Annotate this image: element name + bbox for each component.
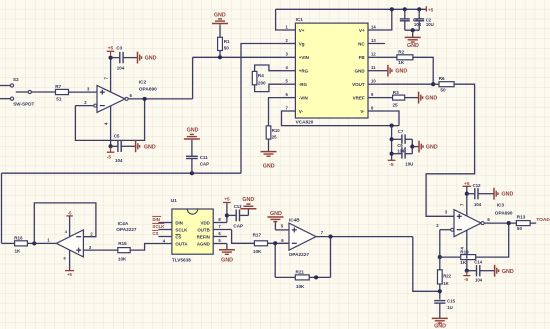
svg-text:-5: -5 <box>68 210 72 215</box>
svg-text:GND: GND <box>395 69 407 75</box>
resistor R3 25 <box>393 90 405 108</box>
svg-text:C5: C5 <box>114 133 120 138</box>
svg-text:12: 12 <box>371 52 376 57</box>
wire - +VIN net horizontal <box>193 56 282 58</box>
svg-text:OPA2227: OPA2227 <box>116 227 137 232</box>
wire - IC1 pin14 to +5 rail <box>382 9 392 30</box>
svg-text:50: 50 <box>440 88 446 93</box>
node - C9 junction <box>390 152 394 156</box>
power +5 at U1 <box>223 197 231 203</box>
svg-text:V-: V- <box>299 109 304 114</box>
svg-text:IC1: IC1 <box>296 17 304 22</box>
U1 pin names <box>175 221 209 247</box>
node - pin4 / C14 junction <box>465 269 469 273</box>
node - R17 / feedback junction <box>273 241 277 245</box>
node - VOUT/R2 junction <box>431 82 435 86</box>
svg-text:R3: R3 <box>393 90 399 95</box>
node - rail junction C2 <box>417 7 421 11</box>
svg-text:10U: 10U <box>405 161 413 166</box>
svg-text:51: 51 <box>56 96 62 101</box>
svg-text:OPA690: OPA690 <box>139 87 157 93</box>
op-amp IC2 OPA690 <box>97 80 157 113</box>
wire - to R21 <box>275 276 295 278</box>
ground at C14 <box>495 265 514 277</box>
ground under R10 <box>261 139 277 170</box>
svg-text:GND: GND <box>407 43 419 49</box>
svg-text:1K: 1K <box>398 60 405 65</box>
svg-text:+5: +5 <box>428 7 434 12</box>
resistor R7 51 <box>55 84 68 102</box>
resistor R19 1K <box>460 249 475 265</box>
svg-text:FB: FB <box>359 55 366 60</box>
svg-text:VDD: VDD <box>201 221 210 226</box>
node - R19 input junction <box>438 255 442 259</box>
svg-text:TOAD: TOAD <box>536 217 550 223</box>
wire - IC2 pin2 inverting input <box>75 100 96 107</box>
wire - IC4A feedback loop <box>34 203 96 244</box>
node - R21 output side junction <box>314 275 318 279</box>
capacitor C14 104 <box>467 260 495 283</box>
U1 pin stubs left <box>158 223 172 237</box>
ground at AGND pin <box>219 244 235 264</box>
power -5 at IC3 <box>463 271 470 282</box>
svg-text:OPA2227: OPA2227 <box>289 252 310 257</box>
wire - +5 rail <box>276 8 427 10</box>
wire - Vg pin2 to gain bus <box>241 44 282 174</box>
wire - IC3 pin7 supply <box>460 186 467 216</box>
svg-text:IC4B: IC4B <box>289 218 300 223</box>
net label SCLK <box>152 223 165 228</box>
node - pin7 / C3 junction <box>109 56 113 60</box>
svg-text:GND: GND <box>425 96 437 102</box>
wire - VDD up to +5 <box>226 203 228 222</box>
resistor R1 50 <box>218 37 230 50</box>
wire - IC2 pin7 supply <box>104 58 111 92</box>
wire - feedback down from R17 node <box>274 243 276 277</box>
svg-text:104: 104 <box>475 278 483 283</box>
wire - to R19 <box>440 256 461 258</box>
ground at IC4B +input <box>267 211 283 230</box>
svg-text:GND: GND <box>221 258 233 264</box>
svg-text:10U: 10U <box>426 22 434 27</box>
svg-text:104: 104 <box>414 22 422 27</box>
svg-text:GND: GND <box>242 197 254 203</box>
svg-text:V+: V+ <box>359 28 365 33</box>
svg-text:13: 13 <box>371 38 376 43</box>
node - V- junction <box>390 124 394 128</box>
svg-text:104: 104 <box>117 65 125 70</box>
ground at C3 <box>138 52 157 64</box>
svg-text:V-: V- <box>360 109 365 114</box>
wire - FB pin12 to R2 <box>382 56 397 58</box>
svg-text:OUTB: OUTB <box>197 228 209 233</box>
wire - IC3 pin4 supply <box>460 230 467 270</box>
svg-text:1K: 1K <box>460 260 467 265</box>
capacitor C7 104 <box>392 129 413 144</box>
svg-text:1U: 1U <box>447 305 453 310</box>
svg-text:10: 10 <box>371 79 376 84</box>
svg-text:GND: GND <box>426 145 438 151</box>
svg-text:-RG: -RG <box>299 82 308 87</box>
node - rail junction C8 <box>403 7 407 11</box>
node - VDD / C13 junction <box>225 213 229 217</box>
power +5 at IC2 <box>107 46 115 56</box>
resistor R17 10K <box>253 233 268 254</box>
wire - IC2 feedback loop <box>75 99 144 140</box>
svg-text:OUTA: OUTA <box>175 242 188 247</box>
svg-text:OPA690: OPA690 <box>495 210 513 215</box>
wire - input from bottom throw of S2 <box>0 98 10 100</box>
svg-text:25: 25 <box>393 102 399 107</box>
wire - IC3 pin2 inverting input <box>436 223 454 231</box>
svg-text:C12: C12 <box>473 183 481 188</box>
svg-text:C7: C7 <box>398 129 404 134</box>
wire - IC3 output <box>481 217 516 225</box>
svg-text:TLV5638: TLV5638 <box>172 258 191 263</box>
node - IC3 output junction <box>507 221 511 225</box>
resistor R2 1K <box>397 49 413 65</box>
wire - gain control bus <box>2 172 242 174</box>
svg-text:CS: CS <box>152 231 158 236</box>
svg-text:25: 25 <box>272 135 277 140</box>
svg-text:R2: R2 <box>398 49 404 54</box>
node - rail junction pin14 <box>390 7 394 11</box>
svg-text:+RG: +RG <box>299 69 309 74</box>
capacitor C5 104 <box>111 133 136 163</box>
resistor R15 10K <box>118 241 130 262</box>
svg-text:GND: GND <box>502 192 514 198</box>
svg-text:+5: +5 <box>67 272 72 277</box>
power -5 at IC2 <box>107 146 115 160</box>
node - C7/C9 gnd junction <box>410 145 414 149</box>
capacitor C12 104 <box>467 183 494 207</box>
svg-text:REFIN: REFIN <box>197 235 210 240</box>
wire - R16 to IC4A output <box>27 238 56 244</box>
wire - C7/C9 join <box>411 139 413 153</box>
svg-text:R17: R17 <box>253 233 262 238</box>
svg-text:R4: R4 <box>258 73 264 78</box>
ground above R1 <box>212 12 228 26</box>
ground under C15 <box>432 318 448 329</box>
wire - IC4A +input to R15 <box>83 245 117 250</box>
svg-text:U1: U1 <box>171 198 177 203</box>
power +5 at IC4A bottom <box>64 250 75 277</box>
net label DIN <box>152 216 161 221</box>
ground under C8/C2 <box>405 30 421 49</box>
wire - S2 pole to R7 <box>31 91 55 93</box>
svg-text:10K: 10K <box>253 249 262 254</box>
wire - C8/C2 bottoms join <box>405 29 419 31</box>
svg-text:R19: R19 <box>460 249 469 254</box>
wire - feedback up to output <box>330 237 332 278</box>
svg-text:-5: -5 <box>107 154 112 160</box>
svg-text:SCLK: SCLK <box>175 228 188 233</box>
svg-text:200: 200 <box>258 81 266 86</box>
svg-text:-VIN: -VIN <box>299 95 308 100</box>
svg-text:10K: 10K <box>296 284 305 289</box>
node - decoupling junction <box>411 28 415 32</box>
svg-text:AGND: AGND <box>197 242 210 247</box>
wire - bus down to R16 <box>1 173 3 243</box>
svg-text:R1: R1 <box>224 39 230 44</box>
wire - R21 to output <box>309 276 330 278</box>
svg-text:VOUT: VOUT <box>352 82 365 87</box>
svg-text:50: 50 <box>517 226 523 231</box>
svg-text:DIN: DIN <box>152 217 160 222</box>
svg-text:C11: C11 <box>200 155 209 160</box>
wire - IC1 pin8 V- route <box>382 111 400 126</box>
ground at IC1 pin11 <box>382 65 408 77</box>
wire - IC2 output up to +VIN net <box>192 57 194 99</box>
svg-text:11: 11 <box>371 65 376 70</box>
power +5 at rail end <box>426 6 433 12</box>
wire - input from top throw of S2 <box>0 85 10 87</box>
wire - R7 to IC2 pin3 <box>69 87 98 92</box>
wire - R2 to VOUT net <box>413 57 433 84</box>
wire - R15 to U1 OUTA <box>130 239 172 251</box>
svg-text:104: 104 <box>474 202 482 207</box>
svg-text:1K: 1K <box>15 249 22 254</box>
svg-text:-5: -5 <box>464 277 469 282</box>
wire - V- down to -5 <box>391 126 393 161</box>
wire - IC1 pin1 V+ to +5 rail <box>276 9 282 30</box>
svg-text:+VIN: +VIN <box>299 55 309 60</box>
svg-text:+5: +5 <box>108 46 114 52</box>
wire - GND to R1 <box>219 26 221 38</box>
svg-text:104: 104 <box>115 158 123 163</box>
svg-text:CAP: CAP <box>200 162 210 167</box>
ground above C11 <box>184 127 200 139</box>
svg-text:+5: +5 <box>224 197 230 202</box>
svg-text:S2: S2 <box>13 77 19 82</box>
wire - IC1 pin7 V- route <box>282 111 400 126</box>
svg-text:SCLK: SCLK <box>152 224 165 229</box>
svg-text:CAP: CAP <box>233 223 243 228</box>
net label TOAD <box>536 217 550 223</box>
svg-text:1K: 1K <box>443 281 449 286</box>
svg-text:V+: V+ <box>299 28 305 33</box>
wire - VREF pin9 to R3 <box>382 97 393 99</box>
svg-text:50: 50 <box>224 46 230 51</box>
node - pin4 / C5 junction <box>109 144 113 148</box>
ground at C12 <box>494 188 514 200</box>
resistor R21 10K <box>295 270 309 289</box>
power -5 at IC4A top <box>65 210 73 236</box>
wire - IC3 pin3 label <box>445 210 448 215</box>
wire - OUTB to R17 <box>232 230 255 244</box>
svg-text:DIN: DIN <box>175 221 183 226</box>
wire - IC2 output <box>125 93 193 101</box>
capacitor C3 104 <box>111 46 138 71</box>
svg-text:C3: C3 <box>116 46 122 51</box>
svg-text:R10: R10 <box>272 128 280 133</box>
power +5 at IC3 <box>463 181 472 187</box>
capacitor C15 1U <box>434 299 455 319</box>
ground at C7/C9 <box>412 141 438 153</box>
DAC U1 TLV5638 body <box>171 198 213 262</box>
svg-text:IC4A: IC4A <box>118 221 129 226</box>
resistor R10 25 <box>266 126 280 140</box>
wire - IC4B output to IC3 section <box>316 230 413 237</box>
capacitor C2 10U <box>414 9 434 30</box>
wire - bus to R16 <box>2 242 15 244</box>
svg-text:GND: GND <box>187 127 199 133</box>
svg-text:-5: -5 <box>389 162 394 168</box>
svg-text:R21: R21 <box>296 270 305 275</box>
op-amp IC1 VCA820 body <box>295 17 368 124</box>
svg-text:GND: GND <box>434 323 446 329</box>
svg-text:R22: R22 <box>443 274 451 279</box>
svg-text:R7: R7 <box>55 84 61 89</box>
op-amp IC4A OPA2227 <box>56 221 137 257</box>
wire - -VIN pin6 to R10 <box>269 98 282 126</box>
svg-text:104: 104 <box>397 148 405 153</box>
wire - R19 to output <box>476 223 509 257</box>
svg-text:C15: C15 <box>447 299 455 304</box>
resistor R6 50 <box>433 76 454 93</box>
capacitor C13 CAP <box>227 204 249 228</box>
svg-text:VCA820: VCA820 <box>296 120 314 125</box>
svg-text:C9: C9 <box>397 143 403 148</box>
svg-text:GND: GND <box>214 12 226 18</box>
node - IC4B output junction <box>328 235 332 239</box>
svg-text:GND: GND <box>263 164 275 170</box>
svg-text:10K: 10K <box>118 257 127 262</box>
op-amp IC3 OPA690 <box>454 202 513 236</box>
svg-text:VREF: VREF <box>353 95 365 100</box>
node - C11 junction on bus <box>190 171 194 175</box>
resistor R22 1K <box>438 257 452 299</box>
svg-text:R13: R13 <box>517 214 526 219</box>
U1 pin stubs right <box>213 217 231 244</box>
power -5 below VCA820 <box>388 160 396 168</box>
svg-text:GND: GND <box>270 211 282 217</box>
node - R1 junction on +VIN net <box>218 55 222 59</box>
svg-text:14: 14 <box>371 24 376 29</box>
wire - R6 to IC3 +input <box>426 84 475 216</box>
wire - pin2 down to R19 net <box>439 230 441 257</box>
IC1 pins and pin numbers <box>282 24 385 114</box>
svg-text:R16: R16 <box>14 235 23 240</box>
svg-text:+5: +5 <box>464 181 470 186</box>
ground at C13 <box>240 197 256 215</box>
svg-text:R6: R6 <box>439 76 445 81</box>
svg-text:C14: C14 <box>474 260 482 265</box>
node - R22 / C15 junction <box>438 289 442 293</box>
svg-text:IC2: IC2 <box>139 80 147 86</box>
resistor R16 1K <box>14 235 27 253</box>
ground at R3 <box>405 92 438 104</box>
wire - -RG pin5 loop <box>255 84 282 91</box>
svg-text:GND: GND <box>145 56 157 62</box>
node - IC2 output junction <box>143 97 147 101</box>
ground at C5 <box>136 140 156 152</box>
wire - R17 to IC4B -input <box>268 238 290 243</box>
wire - IC2 pin4 supply <box>104 106 111 146</box>
svg-text:Vg: Vg <box>299 41 305 46</box>
capacitor C11 CAP <box>186 140 209 173</box>
wire - gnd to IC4B pin5 <box>275 223 289 230</box>
resistor R13 50 <box>516 214 530 231</box>
svg-text:NC: NC <box>358 41 365 46</box>
wire - R1 to +VIN net <box>219 51 221 58</box>
wire - +RG pin4 loop <box>255 65 282 71</box>
op-amp IC4B OPA2227 <box>289 218 316 258</box>
svg-text:CS: CS <box>175 235 181 240</box>
svg-text:IC3: IC3 <box>497 202 505 207</box>
capacitor C8 104 <box>400 9 422 30</box>
resistor R4 200 <box>252 71 266 85</box>
net label CS <box>152 230 158 235</box>
switch S2 (SW-SPDT) <box>10 77 34 106</box>
svg-text:GND: GND <box>144 144 156 150</box>
capacitor C9 10U <box>392 143 414 166</box>
node - pin7 / C12 junction <box>465 192 469 196</box>
wire - VOUT pin10 <box>382 83 434 85</box>
svg-text:GND: GND <box>355 69 366 74</box>
node - IC4A output junction <box>32 241 36 245</box>
svg-text:GND: GND <box>502 269 514 275</box>
svg-text:R15: R15 <box>118 241 127 246</box>
wire - R13 to TOAD <box>530 222 536 224</box>
node - C7 junction <box>390 137 394 141</box>
wire - IC4B output down to R22 net <box>413 237 440 292</box>
svg-text:SW-SPDT: SW-SPDT <box>13 102 34 107</box>
